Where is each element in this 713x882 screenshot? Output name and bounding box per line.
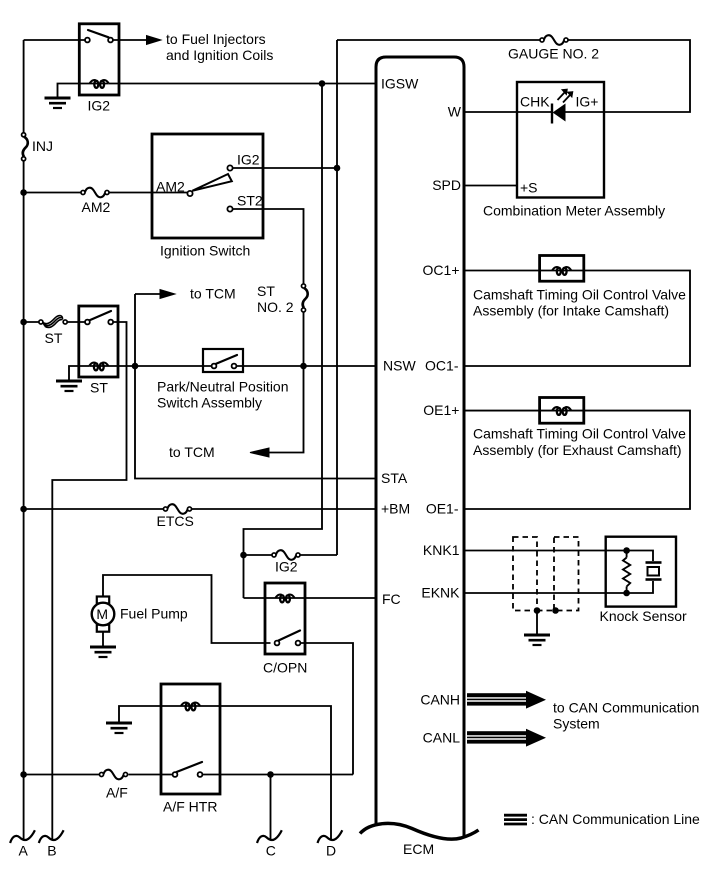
wire ignition ST2 pin to ST NO.2 link	[233, 209, 304, 284]
label pin KNK1	[423, 542, 460, 558]
junction A-rail ETCS	[20, 506, 27, 513]
svg-text:Park/Neutral Position: Park/Neutral Position	[157, 379, 289, 395]
svg-text:Assembly (for Intake Camshaft): Assembly (for Intake Camshaft)	[473, 303, 669, 319]
label IG+	[576, 94, 599, 110]
fuse ETCS	[24, 504, 376, 514]
label GAUGE NO. 2	[508, 46, 599, 62]
relay ST coil	[89, 362, 108, 370]
connector break D	[318, 830, 343, 843]
shield dashed bottom link	[537, 610, 554, 612]
label AM2 (ignition switch pin)	[156, 179, 185, 195]
label A	[19, 843, 29, 859]
junction C branch	[267, 771, 274, 778]
svg-text:to Fuel Injectors: to Fuel Injectors	[166, 31, 266, 47]
wire TCM branch vertical and STA line	[135, 294, 376, 479]
svg-text:ST: ST	[45, 330, 63, 346]
svg-text:CANL: CANL	[423, 730, 461, 746]
label ST NO. 2	[257, 283, 294, 315]
svg-text:OE1+: OE1+	[423, 402, 459, 418]
ground (A/F HTR coil)	[106, 723, 132, 733]
label D	[326, 843, 336, 859]
svg-text:+S: +S	[520, 180, 538, 196]
label pin OE1-	[426, 501, 459, 517]
wire W pin to meter	[464, 111, 517, 113]
fuse IG2 (middle)	[244, 550, 338, 560]
wire OC1+ pin to valve 1	[464, 270, 540, 272]
junction A-rail A/F	[20, 771, 27, 778]
label pin SPD	[432, 177, 461, 193]
svg-text:Assembly (for Exhaust Camshaft: Assembly (for Exhaust Camshaft)	[473, 442, 682, 458]
label Combination Meter Assembly	[483, 203, 665, 219]
connector break A	[10, 830, 35, 843]
shield dashed box 1	[513, 537, 537, 611]
svg-text:Knock Sensor: Knock Sensor	[600, 608, 687, 624]
wire SPD pin to meter	[464, 185, 517, 187]
ground (fuel pump)	[90, 647, 116, 657]
relay ST box	[79, 306, 118, 377]
label +S	[520, 180, 538, 196]
fuse GAUGE NO. 2	[540, 35, 568, 45]
svg-text:SPD: SPD	[432, 177, 461, 193]
label ETCS	[157, 513, 194, 529]
svg-text:and Ignition Coils: and Ignition Coils	[166, 47, 273, 63]
arrow to TCM (lower, pointing left)	[250, 448, 269, 457]
switch Ignition Switch box	[152, 134, 263, 238]
relay IG2 coil	[90, 80, 109, 88]
relay ST switch	[85, 311, 113, 324]
label CAN Communication Line	[531, 811, 700, 827]
wire IG2 coil to ECM IGSW pin	[109, 83, 376, 85]
label pin OC1-	[425, 358, 459, 374]
connector break C	[257, 830, 282, 843]
relay IG2 box	[79, 24, 119, 95]
svg-text:+BM: +BM	[381, 501, 410, 517]
label A/F (fuse)	[106, 785, 128, 801]
wire valve 2 return to OE1- pin	[464, 411, 690, 509]
wire C/OPN switch down to A/F line	[300, 643, 353, 775]
ECM wavy bottom	[360, 823, 479, 839]
svg-text:GAUGE NO. 2: GAUGE NO. 2	[508, 46, 599, 62]
wire EKNK pin to knock sensor	[464, 592, 627, 594]
svg-text:Camshaft Timing Oil Control Va: Camshaft Timing Oil Control Valve	[473, 287, 686, 303]
wire fuel pump top to C/OPN switch	[103, 575, 271, 643]
wire A/F HTR switch line	[202, 774, 353, 776]
label IG2 (middle fuse)	[275, 559, 298, 575]
fuse INJ	[22, 133, 28, 161]
label Ignition Switch	[160, 243, 250, 259]
svg-text:to CAN Communication: to CAN Communication	[553, 700, 699, 716]
svg-text:C/OPN: C/OPN	[263, 660, 307, 676]
label ECM	[403, 841, 434, 857]
label Fuel Pump	[120, 606, 188, 622]
svg-text:IGSW: IGSW	[381, 76, 419, 92]
fuse ST (fusible link)	[24, 316, 85, 328]
label Park/Neutral Position Switch Assembly	[157, 379, 289, 411]
svg-text:CHK: CHK	[520, 94, 550, 110]
ground (IG2 relay coil)	[45, 98, 71, 108]
svg-text:EKNK: EKNK	[421, 585, 460, 601]
svg-text:System: System	[553, 716, 600, 732]
svg-text:W: W	[448, 104, 462, 120]
svg-text:Combination Meter Assembly: Combination Meter Assembly	[483, 203, 665, 219]
wire A/F HTR coil left to ground	[119, 706, 200, 722]
label to Fuel Injectors and Ignition Coils	[166, 31, 273, 63]
label B	[47, 843, 56, 859]
svg-text:NO. 2: NO. 2	[257, 299, 294, 315]
junction shield ground 2	[552, 607, 559, 614]
label pin W	[448, 104, 462, 120]
relay C/OPN switch	[275, 631, 301, 646]
junction shield ground 1	[534, 607, 541, 614]
svg-text:A/F HTR: A/F HTR	[163, 799, 217, 815]
label pin OE1+	[423, 402, 459, 418]
wire IG2 coil left to ground	[58, 84, 109, 97]
wire KNK1 pin to knock sensor	[464, 550, 627, 552]
label Camshaft Timing Oil Control Valve Assembly (for Intake Camshaft)	[473, 287, 686, 319]
junction knock sensor top	[623, 547, 630, 554]
junction A-rail AM2	[20, 189, 27, 196]
label to CAN Communication System	[553, 700, 699, 732]
ground (ST relay coil)	[56, 381, 82, 391]
ground (knock sensor shield)	[524, 635, 550, 645]
label A/F HTR	[163, 799, 217, 815]
label Knock Sensor	[600, 608, 687, 624]
A/F HTR coil	[181, 702, 200, 710]
label to TCM (lower)	[169, 444, 215, 460]
relay C/OPN box	[265, 583, 305, 654]
label pin STA	[381, 470, 408, 486]
valve 2 box (exhaust)	[540, 398, 584, 424]
svg-text:INJ: INJ	[32, 138, 53, 154]
wire IGSW rail down and over to IG2 fuse	[244, 84, 323, 599]
wire top rail with GAUGE NO.2 fuse to IG+	[337, 40, 690, 112]
wire A/F HTR coil right to D connector	[200, 706, 331, 840]
junction TCM branch on NSW line	[132, 363, 139, 370]
label pin FC	[382, 591, 401, 607]
svg-text:to TCM: to TCM	[169, 444, 215, 460]
wire valve 1 return to OC1- pin	[464, 271, 690, 367]
wire ST NO.2 down to TCM arrow	[269, 312, 304, 452]
svg-text:AM2: AM2	[156, 179, 185, 195]
connector break B	[39, 830, 64, 843]
CAN arrow CANL	[467, 729, 546, 747]
resistor (knock sensor)	[623, 551, 630, 594]
relay IG2 switch	[85, 30, 113, 42]
junction knock sensor bottom	[623, 590, 630, 597]
wire ST coil left to ground	[69, 366, 89, 380]
CAN arrow CANH	[467, 691, 546, 709]
junction A-rail ST	[20, 319, 27, 326]
wire NSW line: ST coil to P/N switch to ECM	[89, 365, 376, 367]
fuse ST NO. 2	[301, 284, 307, 312]
label ST2 (ignition switch pin)	[237, 193, 263, 209]
fuse AM2	[24, 188, 188, 198]
P/N switch contacts and lever	[212, 355, 237, 368]
svg-text:FC: FC	[382, 591, 401, 607]
label ST (fuse)	[45, 330, 63, 346]
label pin CANH	[420, 692, 460, 708]
label to TCM (upper)	[190, 286, 236, 302]
wire shield to ground	[536, 611, 538, 634]
valve 1 box (intake)	[540, 256, 584, 282]
arrow to fuel injectors	[147, 36, 162, 45]
wire A-rail vertical (battery rail A)	[23, 40, 25, 840]
LED CHK indicator	[552, 89, 573, 124]
label pin +BM	[381, 501, 410, 517]
ECM box outline	[376, 57, 464, 836]
svg-text:IG2: IG2	[275, 559, 298, 575]
ignition switch ST2 contact	[227, 206, 232, 211]
legend CAN communication line symbol	[504, 815, 527, 824]
svg-text:OE1-: OE1-	[426, 501, 459, 517]
svg-text:M: M	[96, 606, 108, 622]
wire C/OPN coil to ECM FC pin	[244, 597, 377, 599]
svg-text:: CAN Communication Line: : CAN Communication Line	[531, 811, 700, 827]
svg-text:IG+: IG+	[576, 94, 599, 110]
knock sensor box	[606, 537, 676, 607]
ignition switch IG2 contact	[227, 165, 232, 170]
wire OE1+ pin to valve 2	[464, 410, 540, 412]
wire ST relay switch to B-rail	[52, 322, 126, 840]
label C/OPN	[263, 660, 307, 676]
label pin CANL	[423, 730, 461, 746]
svg-text:to TCM: to TCM	[190, 286, 236, 302]
wire A-rail top corner to IG2 relay	[24, 39, 85, 41]
svg-text:IG2: IG2	[88, 98, 111, 114]
wire IG2 relay output to arrow	[113, 39, 147, 41]
svg-text:ST2: ST2	[237, 193, 263, 209]
valve 1 coil	[540, 267, 584, 275]
ignition switch AM2 contact and lever	[187, 174, 231, 196]
label CHK	[520, 94, 550, 110]
svg-text:OC1+: OC1+	[423, 262, 460, 278]
svg-text:Switch Assembly: Switch Assembly	[157, 395, 262, 411]
svg-text:Camshaft Timing Oil Control Va: Camshaft Timing Oil Control Valve	[473, 426, 686, 442]
heater A/F HTR box	[161, 684, 220, 794]
arrow to TCM (upper, pointing right)	[135, 290, 175, 299]
svg-text:KNK1: KNK1	[423, 542, 460, 558]
wire ignition IG2 pin to rail	[233, 167, 337, 169]
label pin EKNK	[421, 585, 460, 601]
motor fuel pump M	[92, 597, 115, 632]
shield dashed box 2	[554, 537, 579, 611]
piezo element (knock sensor)	[627, 551, 662, 594]
svg-text:AM2: AM2	[82, 199, 111, 215]
svg-text:CANH: CANH	[420, 692, 460, 708]
svg-text:ECM: ECM	[403, 841, 434, 857]
svg-text:NSW: NSW	[383, 358, 416, 374]
svg-text:Fuel Pump: Fuel Pump	[120, 606, 188, 622]
label C	[266, 843, 276, 859]
svg-text:Ignition Switch: Ignition Switch	[160, 243, 250, 259]
label IG2 (ignition switch pin)	[237, 152, 260, 168]
relay C/OPN coil	[276, 594, 295, 602]
label ST (relay)	[90, 380, 108, 396]
label IG2 (relay)	[88, 98, 111, 114]
svg-text:B: B	[47, 843, 56, 859]
label pin NSW	[383, 358, 416, 374]
wire rail x=337 from top rail to IG2 fuse	[336, 40, 338, 555]
svg-text:ST: ST	[90, 380, 108, 396]
wire inside meter to CHK lamp	[517, 111, 604, 113]
label AM2 (fuse)	[82, 199, 111, 215]
label Camshaft Timing Oil Control Valve Assembly (for Exhaust Camshaft)	[473, 426, 686, 459]
svg-text:D: D	[326, 843, 336, 859]
svg-text:OC1-: OC1-	[425, 358, 459, 374]
svg-text:ETCS: ETCS	[157, 513, 194, 529]
meter Combination Meter Assembly box	[517, 82, 604, 198]
junction ignition IG2 wire at rail	[334, 165, 341, 172]
A/F HTR switch	[173, 762, 203, 777]
svg-text:ST: ST	[257, 283, 275, 299]
fuse A/F	[24, 770, 173, 780]
wire C branch down	[270, 775, 272, 841]
svg-text:A: A	[19, 843, 29, 859]
label pin IGSW	[381, 76, 419, 92]
svg-text:A/F: A/F	[106, 785, 128, 801]
junction IGSW rail	[319, 80, 326, 87]
svg-text:IG2: IG2	[237, 152, 260, 168]
junction ST NO.2 at NSW line	[300, 363, 307, 370]
label pin OC1+	[423, 262, 460, 278]
svg-text:C: C	[266, 843, 276, 859]
wire fuel pump bottom to ground	[102, 632, 104, 646]
svg-text:STA: STA	[381, 470, 408, 486]
switch Park/Neutral Position box	[203, 349, 243, 372]
junction IG2 fuse left	[240, 552, 247, 559]
valve 2 coil	[540, 407, 584, 415]
label INJ	[32, 138, 53, 154]
